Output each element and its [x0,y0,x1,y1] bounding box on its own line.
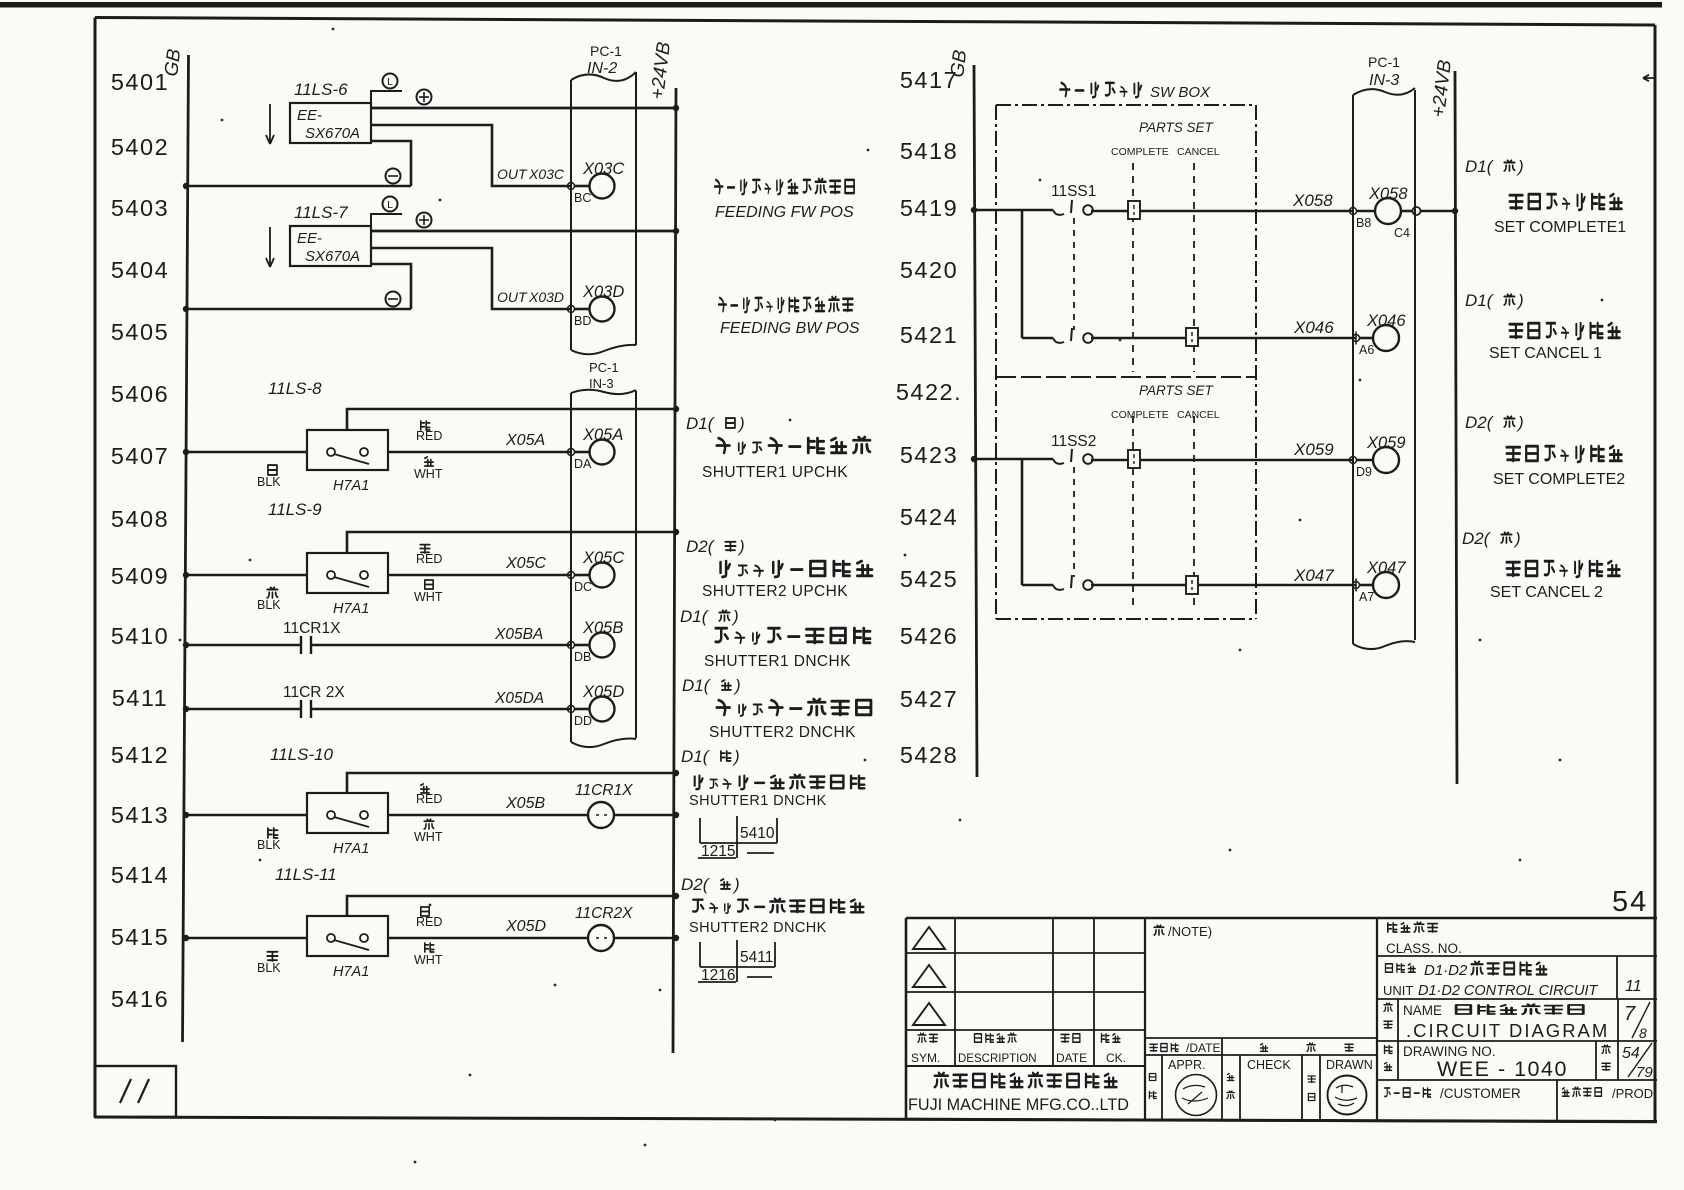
svg-text:54: 54 [1612,886,1648,918]
frame right edge tick [1643,75,1655,81]
svg-text:COMPLETE: COMPLETE [1111,409,1169,421]
input point X03C pin BC [568,160,625,205]
svg-text:DESCRIPTION: DESCRIPTION [958,1053,1037,1065]
pushbutton linkage dashed lines [1133,416,1194,610]
kanji SET COMPLETE2 [1507,446,1622,462]
svg-text:BD: BD [574,314,591,328]
svg-text:5404: 5404 [111,257,169,283]
svg-text:D9: D9 [1356,465,1372,479]
svg-text:SHUTTER1 DNCHK: SHUTTER1 DNCHK [704,653,851,670]
svg-text:EE-: EE- [297,230,322,247]
wire 11LS-7 OUT to connector [371,248,571,309]
kanji SHUTTER2 DNCHK AUX [693,899,863,913]
kanji check-2 [1227,1091,1234,1099]
kanji sho [1384,1021,1392,1028]
kanji jiku seigyo kairo [1471,962,1546,975]
svg-text:/PROD.: /PROD. [1612,1086,1657,1101]
kanji RED 11LS-9 [420,545,430,553]
kanji in parens [721,751,731,761]
svg-text:D1·D2: D1·D2 [1424,962,1468,979]
revision triangle 1 [913,927,945,949]
svg-text:DD: DD [574,714,592,728]
svg-text:5407: 5407 [111,443,169,469]
kanji in parens [726,418,735,428]
revision triangle 2 [913,965,945,987]
kanji in parens [1504,416,1514,427]
svg-text:SHUTTER2 UPCHK: SHUTTER2 UPCHK [702,583,848,600]
input point X05B pin DB [568,619,624,664]
svg-text:): ) [732,747,740,766]
svg-text:X05BA: X05BA [494,626,543,643]
label PARTS SET [1111,120,1220,158]
svg-text:CANCEL: CANCEL [1177,146,1220,158]
svg-text:SHUTTER1 UPCHK: SHUTTER1 UPCHK [702,464,848,481]
svg-text:D1(: D1( [1465,291,1495,310]
svg-text:D1(: D1( [681,747,711,766]
mechanical link dashes 11SS1 [1073,218,1075,330]
date header labels [1150,1041,1353,1055]
svg-text:FEEDING BW POS: FEEDING BW POS [720,320,860,337]
label D1(kanji) [1465,291,1524,310]
APPR stamp cell [1149,1058,1216,1116]
svg-text:): ) [1513,529,1521,548]
labels BLK RED WHT for 11LS-11sw [257,907,443,975]
svg-text:DATE: DATE [1056,1051,1087,1065]
kanji class no [1388,922,1438,932]
svg-text:DC: DC [574,580,592,594]
svg-text:11CR2X: 11CR2X [575,905,633,922]
wire 11LS-6 - to GB [183,141,411,189]
svg-text:X03D: X03D [582,283,624,301]
branch wire 5419 to 5421 [1021,210,1024,338]
svg-text:BLK: BLK [257,961,281,975]
svg-text:BC: BC [574,191,591,205]
date approval table [1145,918,1377,1121]
svg-text:SET COMPLETE2: SET COMPLETE2 [1493,471,1625,488]
svg-text:WHT: WHT [414,830,443,844]
kanji in parens [719,610,729,621]
svg-text:/NOTE): /NOTE) [1168,924,1212,939]
kanji WHT 11LS-11sw [425,943,434,952]
input point X05D pin DD [568,683,625,728]
DRAWN stamp cell [1308,1058,1373,1115]
unit name cell [1377,956,1657,999]
label D1(kanji) [1465,157,1524,176]
kanji RED 11LS-8 [421,421,430,430]
kanji denki kairo [1456,1004,1583,1014]
svg-text:D2(: D2( [686,537,716,556]
bus GB (left) [161,47,188,1042]
kanji FEEDING FW desc [715,179,854,194]
svg-text:PC-1: PC-1 [1368,54,1400,70]
labels BLK RED WHT for 11LS-9 [257,545,443,612]
svg-text:): ) [731,607,739,626]
svg-text:CHECK: CHECK [1247,1058,1291,1072]
svg-text:A7: A7 [1359,590,1374,604]
wire GB to 11LS-10sw [183,812,307,818]
svg-text:IN-3: IN-3 [1369,72,1399,89]
svg-text:5410: 5410 [111,623,169,649]
svg-text:X058: X058 [1368,185,1408,203]
svg-text:11CR 2X: 11CR 2X [283,684,345,701]
svg-text:UNIT: UNIT [1383,983,1413,998]
kanji DATE header [1061,1034,1080,1042]
svg-text:11: 11 [1625,978,1642,995]
pushbutton square CANCEL row 5421 [1186,328,1198,346]
svg-text:A6: A6 [1359,343,1374,357]
bus +24VB (left) [647,41,676,1053]
relay coil 11CR2X [575,905,679,951]
cross-reference table 5411 [698,940,775,984]
svg-text:SHUTTER2 DNCHK: SHUTTER2 DNCHK [709,724,856,741]
switch 11LS-10sw H7A1 [307,770,679,857]
svg-text:5408: 5408 [111,506,169,532]
svg-text:D1(: D1( [680,607,710,626]
11LS-6 terminal L circle [371,74,402,104]
input point X046 pin A6 [1353,312,1407,357]
svg-text:.CIRCUIT DIAGRAM: .CIRCUIT DIAGRAM [1406,1020,1609,1041]
svg-text:5413: 5413 [111,802,169,828]
svg-text:RED: RED [416,429,442,443]
svg-text:5418: 5418 [900,138,958,164]
svg-text:H7A1: H7A1 [333,841,369,857]
svg-text:OUT: OUT [497,289,528,305]
wire 11LS-7 - to GB [183,264,411,312]
kanji SET CANCEL1 [1510,323,1620,339]
kanji approve-2 [1149,1092,1156,1099]
kanji drawn-1 [1308,1076,1315,1083]
svg-text:SET CANCEL 1: SET CANCEL 1 [1489,345,1602,362]
svg-text:X047: X047 [1293,566,1334,585]
kanji BLK 11LS-9 [267,587,277,598]
svg-text:D2(: D2( [1465,413,1495,432]
note area label [1154,924,1212,939]
svg-text:CK.: CK. [1106,1051,1126,1065]
kanji approve-1 [1149,1074,1155,1081]
kanji drawn-2 [1308,1094,1314,1101]
svg-text:X05DA: X05DA [494,690,544,707]
kanji RED 11LS-11sw [421,907,429,916]
svg-text:11LS-11: 11LS-11 [275,865,337,884]
label D1(kanji) [680,607,739,626]
svg-text:5422.: 5422. [896,379,962,405]
kanji yymmdd [1150,1044,1178,1052]
kanji WHT 11LS-9 [425,580,433,589]
svg-text:X05C: X05C [582,549,624,567]
svg-text:X03C: X03C [528,166,565,182]
svg-text:8: 8 [1639,1025,1647,1041]
cross-reference table 5410 [698,816,777,860]
svg-text:5420: 5420 [900,257,958,283]
input point X03D pin BD [568,283,625,328]
svg-text:X05A: X05A [582,426,623,444]
input point X047 pin A7 [1353,559,1407,604]
switch 11LS-11sw H7A1 [307,893,679,980]
svg-text:5411: 5411 [740,949,773,966]
class no cell [1377,922,1657,956]
kanji check-1 [1227,1074,1233,1081]
svg-text:WHT: WHT [414,953,443,967]
kanji in parens [1504,160,1514,171]
svg-text:5419: 5419 [900,195,958,221]
svg-text:DB: DB [574,650,591,664]
svg-text:11LS-7: 11LS-7 [294,203,348,222]
svg-text:11LS-8: 11LS-8 [268,379,322,398]
wire 11LS-6 + to +24VB [371,90,679,112]
svg-text:5415: 5415 [111,924,169,950]
svg-text:5427: 5427 [900,686,958,712]
svg-text:RED: RED [416,915,442,929]
svg-text:X059: X059 [1293,440,1334,459]
drawing no cell [1377,1041,1657,1081]
pushbutton square COMPLETE row 5419 [1128,201,1140,219]
svg-text:11SS2: 11SS2 [1051,433,1096,450]
svg-text:X05B: X05B [505,795,545,812]
svg-text:5426: 5426 [900,623,958,649]
label D2(kanji) [681,875,740,894]
svg-text:X046: X046 [1293,318,1334,337]
kanji fuji machine company [935,1073,1117,1087]
kanji BLK 11LS-10sw [268,828,278,838]
pushbutton contact (cancel) row 5425 [1022,575,1356,590]
svg-text:H7A1: H7A1 [333,964,369,980]
svg-text:11LS-10: 11LS-10 [270,745,334,764]
wire 11LS-10sw output [388,795,588,815]
kanji SHUTTER1 DNCHK [716,628,870,644]
svg-text:SW BOX: SW BOX [1150,84,1211,101]
connector PC-1 IN-2 [571,43,636,354]
svg-text:D2(: D2( [1462,529,1492,548]
kanji FEEDING BW desc [719,297,853,312]
kanji kishyumei [1385,964,1415,972]
svg-text:EE-: EE- [297,107,322,124]
svg-text:D1(: D1( [682,676,712,695]
kanji BLK 11LS-11sw [267,952,277,961]
svg-text:C4: C4 [1394,226,1410,240]
wire GB to 11LS-9 [183,572,307,578]
svg-text:FEEDING FW POS: FEEDING FW POS [715,204,854,221]
switch 11LS-9 H7A1 [307,529,679,617]
svg-text:PARTS SET: PARTS SET [1139,120,1215,135]
svg-text:SET CANCEL 2: SET CANCEL 2 [1490,584,1603,601]
svg-text:X05B: X05B [582,619,623,637]
revision table [906,918,1145,1119]
svg-text:5403: 5403 [111,195,169,221]
svg-text:11CR1X: 11CR1X [283,620,341,637]
svg-text:IN-3: IN-3 [589,376,614,391]
connector PC-1 IN-3 (right) [1353,54,1415,649]
svg-text:5416: 5416 [111,986,169,1012]
label PARTS SET [1111,383,1220,421]
svg-text:5405: 5405 [111,319,169,345]
wire 11LS-7 + to +24VB [371,213,679,235]
svg-text:11SS1: 11SS1 [1051,183,1096,200]
input point X05A pin DA [568,426,624,471]
svg-text:/DATE: /DATE [1186,1041,1220,1055]
svg-text:X047: X047 [1366,559,1406,577]
svg-text:OUT: OUT [497,166,528,182]
svg-text:5421: 5421 [900,322,958,348]
kanji day [1345,1044,1353,1051]
svg-text:D1·D2 CONTROL CIRCUIT: D1·D2 CONTROL CIRCUIT [1418,983,1599,999]
svg-text:SHUTTER2 DNCHK: SHUTTER2 DNCHK [689,920,827,936]
svg-text:D1(: D1( [686,414,716,433]
svg-text:BLK: BLK [257,475,281,489]
svg-text:NAME: NAME [1403,1003,1442,1018]
svg-text:5409: 5409 [111,563,169,589]
svg-text:X058: X058 [1292,191,1333,210]
kanji in parens [1504,294,1514,305]
svg-text:X05C: X05C [505,555,546,572]
svg-text:RED: RED [416,552,442,566]
svg-text:L: L [387,199,393,211]
svg-text:X05D: X05D [505,918,546,935]
wire 11LS-6 OUT to connector [371,125,571,186]
kanji mei [1384,1003,1392,1011]
mechanical link dashes 11SS2 [1073,467,1075,577]
pushbutton square COMPLETE row 5423 [1128,450,1140,468]
svg-text:/CUSTOMER: /CUSTOMER [1440,1086,1521,1101]
kanji DESCRIPTION header [974,1033,1016,1042]
kanji ban [1385,1063,1392,1071]
svg-text:X03C: X03C [582,160,624,178]
customer cell [1385,1080,1657,1121]
kanji WHT 11LS-8 [425,457,433,466]
svg-text:BLK: BLK [257,598,281,612]
label D1(kanji) [682,676,741,695]
wire 11LS-11sw output [388,918,588,938]
switch 11LS-8 H7A1 [307,406,679,494]
kanji SET CANCEL2 [1507,561,1620,577]
svg-text:): ) [732,875,740,894]
svg-text:B8: B8 [1356,216,1371,230]
kanji SHUTTER2 UPCHK [721,561,872,577]
svg-text:X05D: X05D [582,683,624,701]
wire GB to 11LS-11sw [183,935,307,941]
revision triangle 3 [913,1003,945,1025]
svg-text:PC-1: PC-1 [589,360,619,375]
photo sensor 11LS-6 EE-SX670A [266,80,371,144]
revision table headers [911,1033,1126,1065]
kanji zu [1385,1046,1393,1054]
svg-text:WHT: WHT [414,467,443,481]
kanji SYM header [918,1033,937,1042]
svg-text:): ) [1516,413,1524,432]
input point X05C pin DC [568,549,625,594]
kanji page [1602,1045,1610,1053]
label D1(kanji) [686,414,745,433]
wire GB to 11LS-8 [183,449,307,455]
input point X058 pin B8 [1350,185,1409,230]
row number labels 5401-5416 [111,69,169,1012]
svg-text:X059: X059 [1366,434,1406,452]
svg-text:SX670A: SX670A [305,248,360,265]
scan top edge strip [0,2,1662,8]
CHECK cell [1227,1058,1291,1099]
sheet number box bottom-left [95,1066,176,1117]
svg-text:5425: 5425 [900,566,958,592]
svg-text:D2(: D2( [681,875,711,894]
company name Fuji Machine [908,1073,1129,1114]
svg-text:5406: 5406 [111,381,169,407]
labels BLK RED WHT for 11LS-8 [257,421,443,489]
relay coil 11CR1X [575,782,679,828]
kanji num [1602,1063,1610,1070]
cartridge SW BOX enclosure label [1060,83,1211,101]
kanji SHUTTER1 UPCHK [717,437,870,454]
svg-text:CANCEL: CANCEL [1177,409,1220,421]
svg-text:5412: 5412 [111,742,169,768]
svg-text:D1(: D1( [1465,157,1495,176]
svg-text:11LS-6: 11LS-6 [294,80,348,99]
svg-text:PARTS SET: PARTS SET [1139,383,1215,398]
svg-text:5423: 5423 [900,442,958,468]
svg-text:79: 79 [1636,1064,1653,1081]
svg-text:5411: 5411 [112,685,169,711]
svg-text:H7A1: H7A1 [333,478,369,494]
kanji month [1307,1043,1315,1051]
kanji year [1261,1044,1268,1052]
pushbutton contact (cancel) row 5421 [1022,328,1356,343]
svg-text:L: L [387,76,393,88]
kanji BLK 11LS-8 [268,465,277,475]
kanji note [1154,925,1164,935]
svg-text:11CR1X: 11CR1X [575,782,633,799]
kanji in parens [721,879,730,889]
kanji cartridge [1060,83,1141,97]
svg-text:PC-1: PC-1 [590,43,622,59]
pushbutton linkage dashed lines [1133,163,1194,372]
svg-text:WHT: WHT [414,590,443,604]
bus GB (right) [947,48,977,777]
svg-text:H7A1: H7A1 [333,601,369,617]
kanji SHUTTER1 DNCHK AUX [695,775,865,789]
kanji seisan bango [1562,1087,1601,1096]
svg-text:X05A: X05A [505,432,545,449]
branch wire 5423 to 5425 [1021,459,1024,585]
kanji SHUTTER2 DNCHK [717,699,871,716]
name cell circuit diagram [1377,999,1657,1041]
svg-text:WEE - 1040: WEE - 1040 [1437,1057,1568,1081]
svg-text:5414: 5414 [111,862,169,888]
svg-text:BLK: BLK [257,838,281,852]
wire 11LS-9 output [388,555,571,575]
input point X059 pin D9 [1350,434,1406,479]
svg-text:): ) [1516,291,1524,310]
svg-text:X046: X046 [1366,312,1406,330]
svg-text:COMPLETE: COMPLETE [1111,146,1169,158]
svg-text:RED: RED [416,792,442,806]
kanji user mei [1385,1088,1431,1097]
svg-text:5410: 5410 [740,825,775,842]
bus +24VB (right) [1428,59,1457,784]
kanji in parens [1501,532,1511,543]
title block outer frame [906,918,1657,1122]
row number labels 5417-5428 [896,67,962,768]
label D2(kanji) [686,537,745,556]
relay contact 11CR 2X [183,684,571,718]
svg-text:SHUTTER1 DNCHK: SHUTTER1 DNCHK [689,793,827,809]
svg-text:7: 7 [1624,1003,1636,1025]
svg-text:5428: 5428 [900,742,958,768]
kanji CK header [1101,1034,1119,1042]
kanji RED 11LS-10sw [421,784,429,793]
svg-text:GB: GB [947,48,971,78]
svg-text:): ) [737,414,745,433]
svg-text:): ) [1516,157,1524,176]
svg-text:54: 54 [1622,1045,1640,1062]
label D2(kanji) [1462,529,1521,548]
